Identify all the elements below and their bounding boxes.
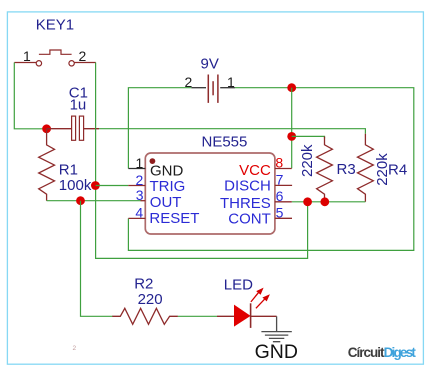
LED D1 (217, 276, 277, 328)
wire to R3 top (292, 136, 325, 138)
svg-text:1: 1 (23, 48, 31, 64)
svg-text:100k: 100k (59, 177, 92, 194)
LED cathode lead (251, 315, 277, 317)
svg-text:TRIG: TRIG (150, 178, 186, 195)
LED triangle (234, 305, 251, 327)
junction dot VCC rail (287, 83, 296, 92)
resistor R2 (112, 275, 178, 324)
svg-text:R1: R1 (59, 162, 78, 179)
wire R1 bottom to OUT pin3 (47, 200, 141, 202)
resistor R4 (358, 134, 408, 202)
svg-text:2: 2 (136, 172, 144, 188)
pin 6 THRES stub (275, 201, 292, 203)
svg-text:LED: LED (224, 276, 253, 293)
wire battery pin2 to IC GND pin1 (128, 88, 191, 169)
wire button pin2 down (TRIG/THRES net) (96, 63, 308, 259)
svg-text:3: 3 (136, 187, 144, 203)
capacitor C1 (47, 84, 99, 140)
pin 1 GND stub (128, 168, 145, 170)
C1 pin leads (47, 128, 99, 130)
svg-text:CONT: CONT (228, 211, 271, 228)
pin 2 TRIG stub (128, 185, 145, 187)
svg-text:220k: 220k (374, 153, 391, 186)
junction dot R3 top (287, 132, 296, 141)
svg-text:9V: 9V (201, 56, 219, 73)
svg-text:4: 4 (135, 205, 143, 221)
pin 8 VCC stub (275, 168, 292, 170)
svg-text:KEY1: KEY1 (36, 16, 74, 33)
pin 7 DISCH stub (275, 184, 292, 186)
wire VCC rail down to pin8 (291, 88, 293, 169)
wire TRIG to pin2 (96, 185, 129, 187)
svg-text:R2: R2 (134, 275, 153, 292)
LED anode lead (217, 315, 234, 317)
svg-text:5: 5 (276, 205, 284, 221)
junction dot R3 bottom (320, 197, 329, 206)
svg-text:GND: GND (150, 162, 184, 179)
svg-text:220: 220 (138, 291, 163, 308)
pin 3 OUT stub (141, 200, 146, 202)
LED cathode bar (250, 303, 252, 328)
svg-text:1: 1 (136, 155, 144, 171)
ground symbol GND (255, 316, 298, 363)
svg-text:R3: R3 (337, 161, 356, 178)
wire C1 to R4 top (99, 129, 365, 134)
junction dot OUT node (76, 196, 85, 205)
ground bars (261, 332, 291, 342)
pin 4 RESET stub (128, 217, 145, 219)
svg-text:DISCH: DISCH (224, 177, 271, 194)
junction dot TRIG (91, 181, 100, 190)
ground stub (276, 316, 278, 331)
svg-text:220k: 220k (299, 144, 316, 177)
op IC NE555 U1 (145, 134, 275, 235)
wire button pin1 down-left (14, 63, 43, 129)
svg-text:6: 6 (276, 188, 284, 204)
LED light arrow 2 (256, 298, 266, 308)
svg-text:2: 2 (79, 48, 87, 64)
svg-text:RESET: RESET (149, 210, 199, 227)
LED light arrow 1 (251, 292, 259, 302)
svg-text:CírcuitDigest: CírcuitDigest (348, 345, 417, 360)
junction dot THRES branch (303, 197, 312, 206)
wire R2 to LED (178, 315, 217, 317)
KEY1 pin leads (14, 62, 96, 64)
NE555 body outline (145, 153, 275, 234)
svg-text:2: 2 (73, 345, 77, 352)
svg-text:7: 7 (276, 172, 284, 188)
wire THRES pin6 to R3/R4 bottoms (292, 201, 366, 203)
pushbutton KEY1 (14, 16, 96, 66)
svg-text:NE555: NE555 (202, 134, 248, 151)
svg-text:1u: 1u (70, 96, 87, 113)
svg-text:OUT: OUT (150, 194, 182, 211)
wire OUT node down to R2 (81, 201, 114, 317)
svg-text:GND: GND (255, 341, 298, 363)
pin 1 indicator dot (150, 158, 156, 164)
resistor R3 (299, 137, 356, 202)
resistor R1 (39, 129, 92, 201)
node A junction dot (42, 124, 51, 133)
svg-text:THRES: THRES (220, 195, 271, 212)
pin 5 CONT stub (275, 217, 292, 219)
svg-text:8: 8 (275, 155, 283, 171)
wire battery pin1 to right rail and RESET (128, 88, 413, 251)
battery 9V (185, 56, 236, 103)
